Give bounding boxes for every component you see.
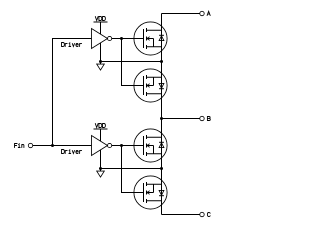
wire gate riser U1 output to Q2 gate xyxy=(122,39,144,86)
wire driver U2 reference to Q3/Q4 common source xyxy=(101,168,162,170)
terminal B xyxy=(200,116,210,120)
wire driver U2 stem xyxy=(100,150,102,169)
node Fin-split (junction) xyxy=(51,144,54,147)
node U1-out (junction) xyxy=(120,37,123,40)
wire Fin to input junction xyxy=(33,145,53,147)
driver U1 xyxy=(62,29,112,49)
terminal C xyxy=(200,212,210,216)
terminal Fin (input) xyxy=(15,143,33,147)
wire main bus A to C xyxy=(161,14,163,215)
node U1-ref (junction) xyxy=(99,60,102,63)
node S2-common (junction) xyxy=(160,167,163,170)
node U2-ref (junction) xyxy=(99,167,102,170)
ground symbol of driver U2 xyxy=(97,169,105,178)
wire bus to terminal B xyxy=(162,118,200,120)
ground symbol of driver U1 xyxy=(97,62,105,71)
driver U2 xyxy=(62,136,112,156)
wire driver U2 output xyxy=(112,145,122,147)
terminal A xyxy=(200,11,210,15)
node S1-common (junction) xyxy=(160,60,163,63)
transistor Q2 (low side of A-B switch) xyxy=(122,69,168,102)
wire driver U1 stem to gnd, tri bottom edge to ref node xyxy=(100,43,102,62)
transistor Q4 (low side of B-C switch) xyxy=(122,176,168,209)
wire gate riser U2 output to Q4 gate xyxy=(122,146,144,193)
wire driver U1 output xyxy=(112,38,122,40)
wire driver U1 reference to Q1/Q2 common source xyxy=(101,61,162,63)
wire bus to terminal C xyxy=(162,214,200,216)
node B-tap (junction) xyxy=(160,117,163,120)
transistor Q1 (high side of A-B switch) xyxy=(122,22,168,55)
wire input junction to driver U2 input xyxy=(53,145,92,147)
wire riser input junction up to driver U1 input xyxy=(53,39,92,146)
wire bus to terminal A xyxy=(162,13,200,15)
power VDD rail of U2 xyxy=(94,124,108,142)
power VDD rail of U1 xyxy=(94,17,108,35)
node U2-out (junction) xyxy=(120,144,123,147)
transistor Q3 (high side of B-C switch) xyxy=(122,129,168,162)
